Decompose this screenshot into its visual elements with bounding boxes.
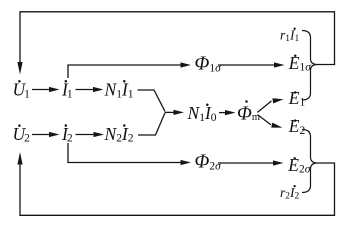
wire Phi1s to E1s [218, 64, 275, 66]
arrowhead into E2s [273, 160, 284, 165]
node I2 [61, 124, 73, 145]
node Phim [237, 100, 260, 124]
wire U2 to I2 [32, 134, 50, 136]
node N2I2 [104, 124, 134, 145]
arrowhead into E1s [274, 62, 285, 67]
node U1 [13, 80, 31, 101]
arrowhead into E2 [271, 123, 282, 128]
svg-text:Φm: Φm [237, 103, 260, 124]
arrowhead into I2 [49, 132, 60, 137]
wire junction to N1I0 [165, 111, 175, 113]
svg-text:E2: E2 [288, 116, 306, 137]
wire I2 to N2I2 [76, 134, 95, 136]
arrowhead into N1I0 [174, 110, 185, 115]
node E1 [288, 88, 306, 109]
wire U1 to I1 [32, 89, 50, 91]
brace grouping E2 E2s r2I2 [302, 130, 318, 193]
wire Phim to E1 branch [258, 101, 272, 113]
node E2s [287, 155, 311, 176]
node r2I2 [280, 185, 300, 202]
svg-text:I1: I1 [61, 80, 73, 101]
svg-text:I2: I2 [61, 124, 73, 145]
svg-text:E1σ: E1σ [288, 53, 312, 74]
wire top feedback loop [20, 12, 335, 65]
svg-text:U2: U2 [13, 124, 31, 145]
svg-text:N1I1: N1I1 [104, 80, 134, 101]
wire I2 drop to Phi2s [68, 143, 182, 163]
svg-text:E1: E1 [288, 88, 306, 109]
node E2 [288, 116, 306, 137]
node U2 [13, 124, 31, 145]
arrowhead into U2 [17, 152, 22, 165]
wire Phi2s to E2s [218, 162, 274, 164]
wire N1I1 to junction [138, 90, 166, 111]
wire N2I2 to junction [138, 113, 165, 135]
svg-text:Φ1σ: Φ1σ [195, 54, 223, 75]
svg-text:E2σ: E2σ [287, 155, 311, 176]
arrowhead into E1 [272, 98, 283, 103]
node I1 [61, 80, 73, 101]
wire I1 riser to Phi1s [68, 65, 182, 78]
node Phi2s [195, 152, 223, 173]
node N1I1 [104, 80, 134, 101]
arrowhead into I1 [49, 87, 60, 92]
node N1I0 [187, 103, 217, 124]
arrowhead into Phim [225, 110, 236, 115]
arrowhead into U1 [17, 62, 22, 75]
node Phi1s [195, 54, 223, 75]
svg-text:r2I2: r2I2 [280, 185, 300, 202]
arrowhead into Phi1s [181, 62, 192, 67]
node E1s [288, 53, 312, 74]
brace grouping r1I1 E1s E1 [302, 31, 318, 101]
arrowhead into N1I1 [93, 87, 104, 92]
svg-text:N1I0: N1I0 [187, 103, 217, 124]
node r1I1 [280, 27, 300, 44]
wire I1 to N1I1 [76, 89, 95, 91]
svg-text:U1: U1 [13, 80, 31, 101]
arrowhead into N2I2 [94, 132, 105, 137]
wire N1I0 to Phim [219, 112, 227, 114]
svg-text:r1I1: r1I1 [280, 27, 300, 44]
wire bottom feedback loop [20, 163, 335, 215]
arrowhead into Phi2s [181, 160, 192, 165]
wire Phim to E2 branch [258, 115, 272, 125]
svg-text:Φ2σ: Φ2σ [195, 152, 223, 173]
svg-text:N2I2: N2I2 [104, 124, 134, 145]
